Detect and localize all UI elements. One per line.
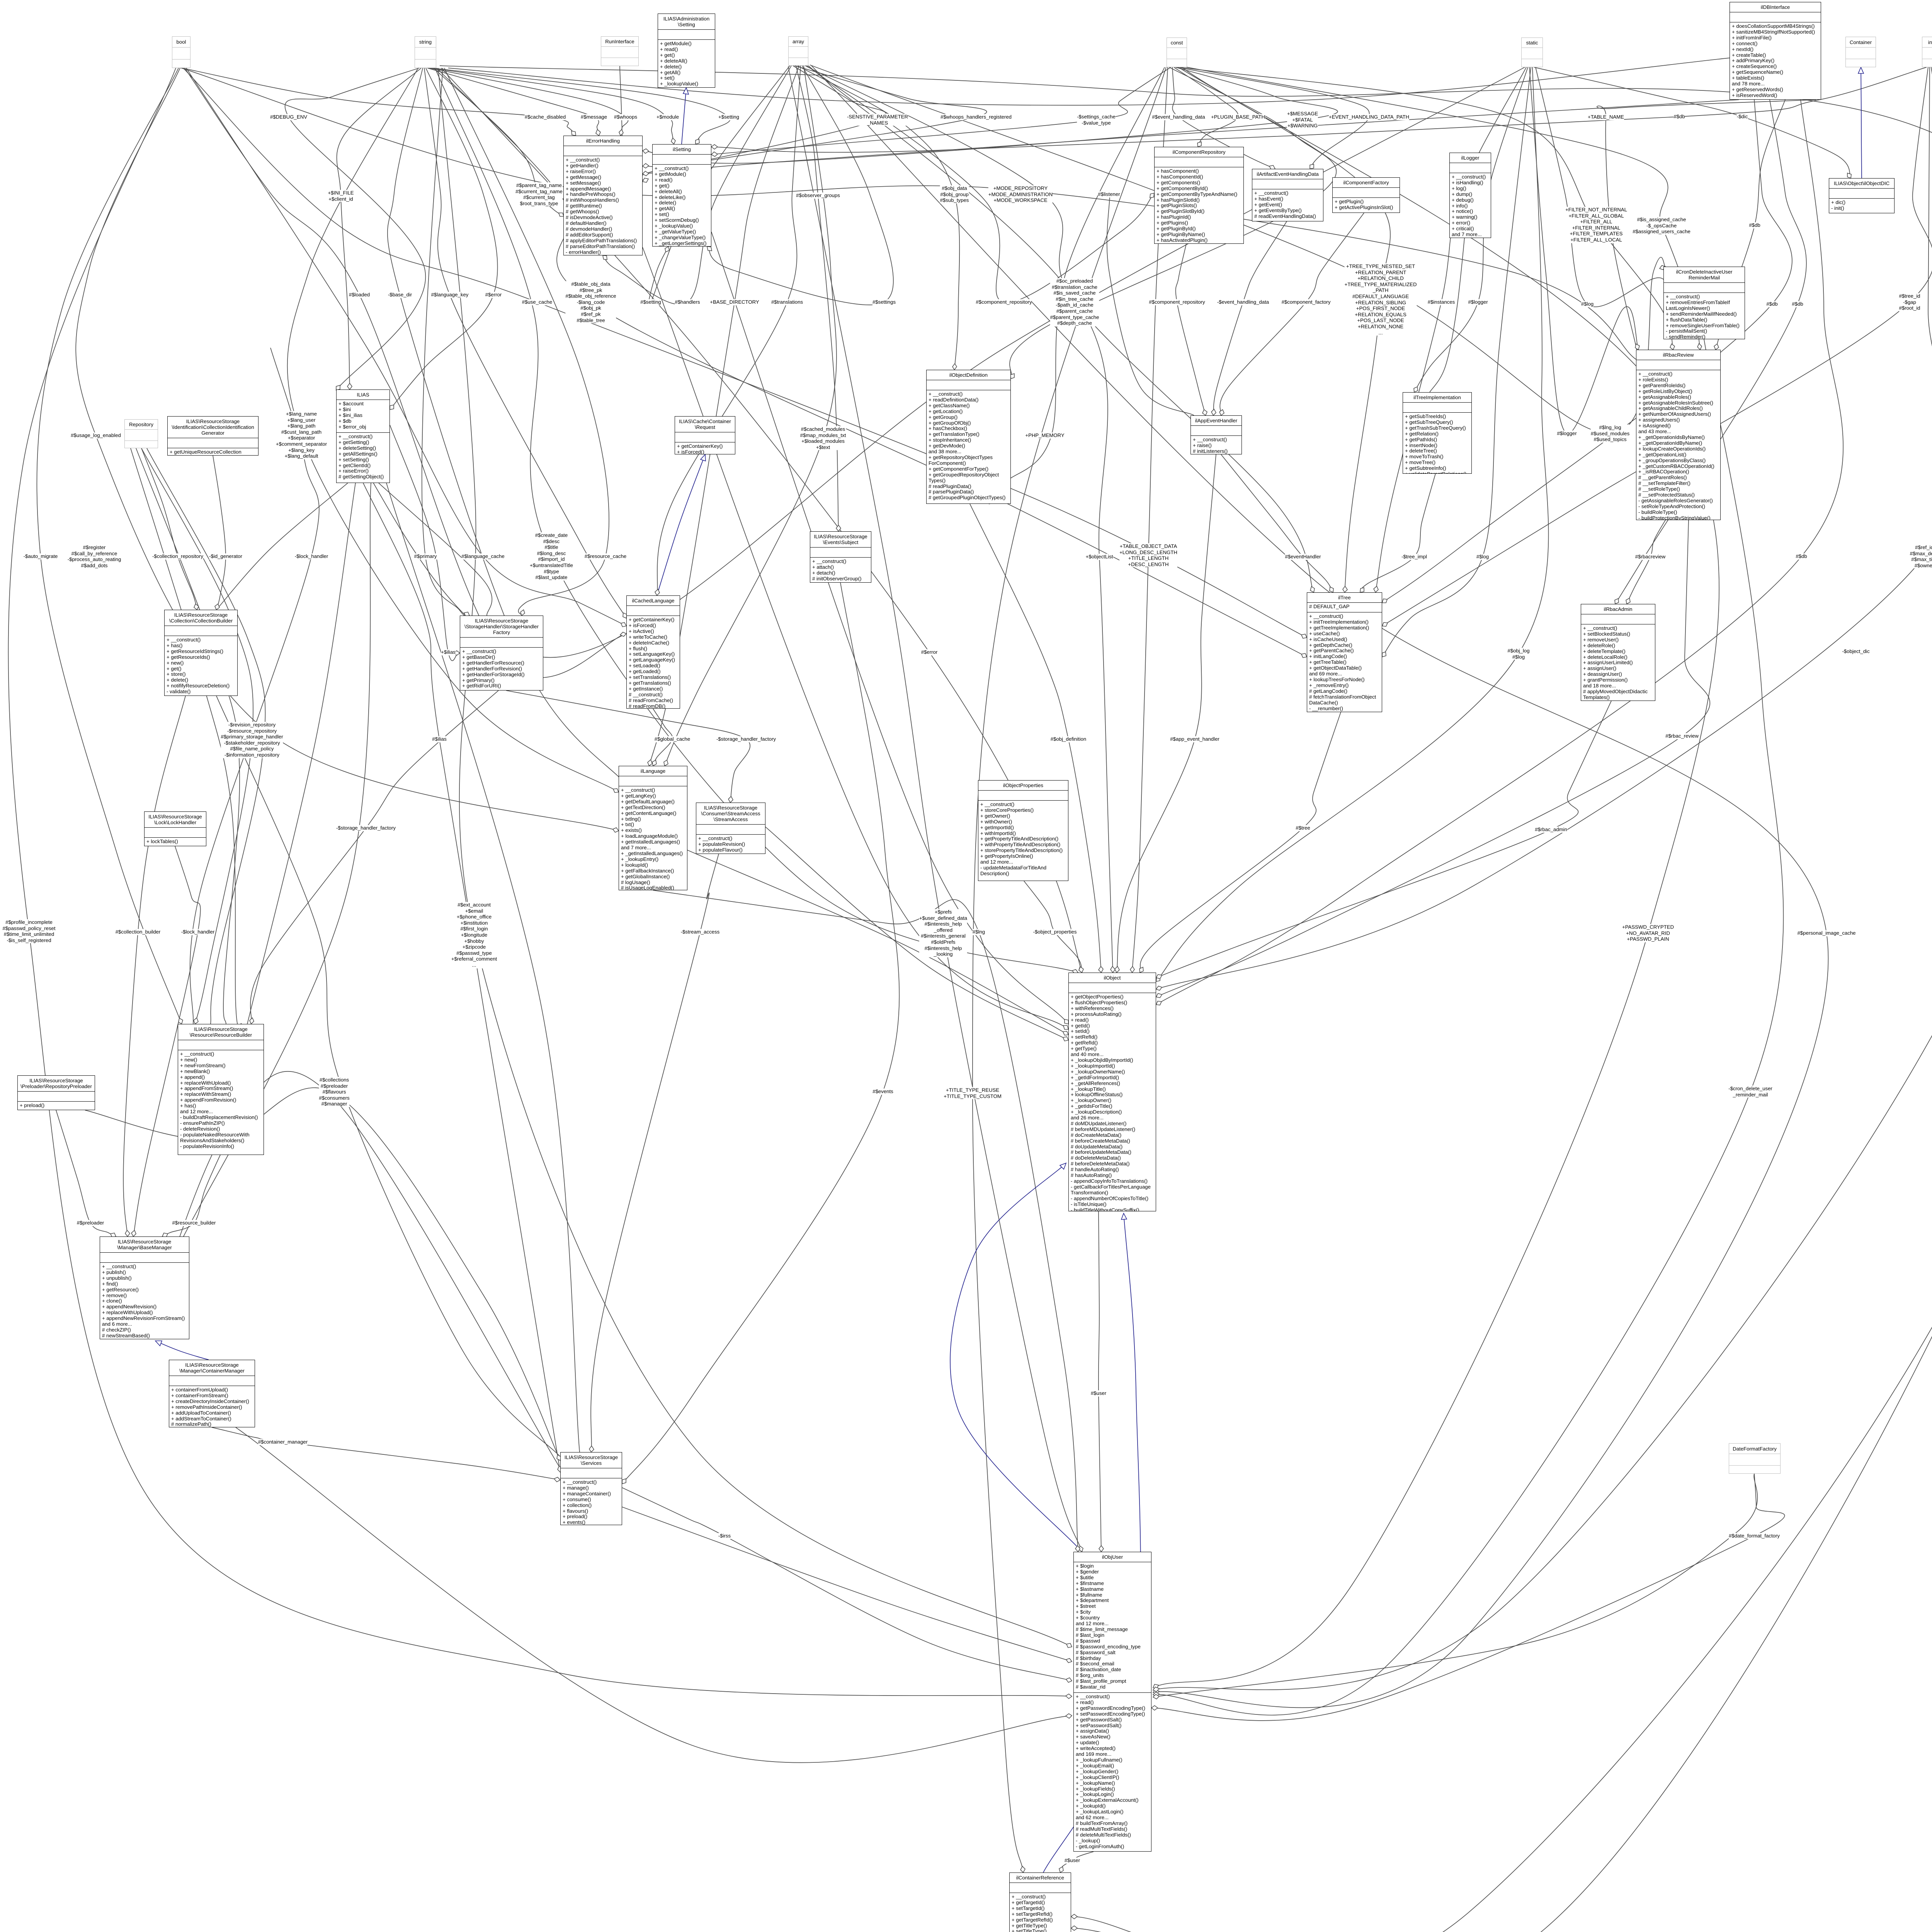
wire xyxy=(1414,67,1528,392)
wire xyxy=(185,68,626,678)
wire xyxy=(613,789,619,793)
wire xyxy=(444,68,609,616)
wire xyxy=(728,796,733,803)
label +$setting xyxy=(718,114,739,120)
wire xyxy=(125,1230,130,1236)
node StreamAccess xyxy=(696,803,765,854)
label #$ref_id xyxy=(1910,544,1932,568)
wire xyxy=(390,425,460,661)
wire xyxy=(182,68,576,136)
node static xyxy=(1521,37,1543,67)
wire xyxy=(133,846,201,1236)
wire xyxy=(1615,599,1619,604)
wire xyxy=(591,854,719,1452)
wire xyxy=(1180,67,1673,350)
wire xyxy=(1382,67,1531,657)
wire xyxy=(155,1341,162,1346)
label #$logger xyxy=(1557,430,1577,437)
node RunInterface xyxy=(601,36,639,66)
node const xyxy=(1167,37,1187,67)
label +PASSWD_CRYPTED xyxy=(1622,924,1674,942)
label #$preloader xyxy=(77,1220,104,1226)
label #$user xyxy=(1065,1857,1080,1864)
wire xyxy=(1099,1546,1104,1552)
node ilTree xyxy=(1307,592,1382,712)
node Container xyxy=(1845,37,1876,67)
node ilDBInterface xyxy=(1730,2,1821,100)
label #$register xyxy=(68,544,121,568)
label #$date_format_factory xyxy=(1729,1533,1780,1539)
node ilArtifactEventHandlingData xyxy=(1252,169,1323,221)
wire xyxy=(111,1233,116,1237)
label #$tree xyxy=(1296,825,1310,831)
wire xyxy=(9,68,1072,1696)
wire xyxy=(648,760,652,766)
wire xyxy=(1020,1866,1025,1872)
wire xyxy=(285,68,426,390)
wire xyxy=(1153,1687,1159,1692)
wire xyxy=(1139,967,1143,973)
wire xyxy=(1151,1706,1158,1710)
wire xyxy=(788,66,1082,1552)
wire xyxy=(1615,100,1806,604)
label +$prefs xyxy=(919,909,967,957)
node ilSetting xyxy=(652,144,711,247)
wire xyxy=(1343,586,1347,592)
wire xyxy=(623,613,627,618)
wire xyxy=(653,890,1078,1552)
wire xyxy=(989,67,1165,504)
label #$DEBUG_ENV xyxy=(270,114,307,120)
wire xyxy=(1714,344,1719,350)
node ilCachedLanguage xyxy=(626,595,680,709)
label #$handlers xyxy=(675,299,700,305)
wire xyxy=(424,68,626,618)
wire xyxy=(388,68,626,784)
label +BASE_DIRECTORY xyxy=(710,299,759,305)
wire xyxy=(1301,653,1307,658)
wire xyxy=(1071,1914,1077,1919)
wire xyxy=(1219,410,1224,415)
wire xyxy=(1063,1037,1068,1041)
wire xyxy=(1382,67,1932,626)
wire xyxy=(1847,173,1851,178)
wire xyxy=(183,68,1307,638)
label #$logger xyxy=(1468,299,1488,305)
wire xyxy=(596,129,600,136)
wire xyxy=(390,405,394,410)
wire xyxy=(836,525,841,531)
wire xyxy=(1597,100,1816,350)
wire xyxy=(186,68,626,626)
node Services xyxy=(560,1452,622,1525)
label -$object_properties xyxy=(1033,929,1077,935)
wire xyxy=(970,504,1101,973)
wire xyxy=(808,66,1113,973)
label #$usage_log_enabled xyxy=(71,432,121,439)
label -$dic xyxy=(1737,114,1748,120)
wire xyxy=(1043,1213,1141,1872)
wire xyxy=(1176,244,1206,415)
wire xyxy=(250,1018,254,1024)
wire xyxy=(1140,712,1341,973)
label #$tree_id xyxy=(1899,293,1920,311)
node string xyxy=(415,36,436,68)
label #$create_date xyxy=(530,532,573,581)
wire xyxy=(422,68,469,617)
wire xyxy=(1627,520,1665,604)
node Repository xyxy=(124,419,158,448)
wire xyxy=(652,760,656,766)
wire xyxy=(1376,67,1526,592)
node CacheRequest xyxy=(675,416,735,454)
node ilRbacReview xyxy=(1636,350,1721,520)
label #$whoops_handlers_registered xyxy=(940,114,1012,120)
wire xyxy=(1211,409,1216,415)
wire xyxy=(435,68,1078,973)
wire xyxy=(643,66,886,167)
wire xyxy=(687,850,1068,1035)
wire xyxy=(1220,213,1364,415)
wire xyxy=(1269,165,1275,170)
wire xyxy=(641,66,987,182)
wire xyxy=(1024,881,1082,973)
wire xyxy=(557,1455,561,1461)
wire xyxy=(216,483,348,610)
label #$events xyxy=(872,1088,893,1095)
node BaseManager xyxy=(100,1236,189,1339)
node DateFormatFactory xyxy=(1729,1443,1781,1474)
wire xyxy=(696,139,699,144)
wire xyxy=(559,213,564,216)
label #$event_handling_data xyxy=(1152,114,1205,120)
node ilObjUser xyxy=(1073,1552,1151,1852)
wire xyxy=(622,1479,626,1484)
label #$container_manager xyxy=(258,1439,308,1445)
wire xyxy=(1360,474,1435,592)
label +$objectList xyxy=(1086,554,1113,560)
label +FILTER_NOT_INTERNAL xyxy=(1565,207,1627,243)
wire xyxy=(952,364,957,370)
wire xyxy=(1115,966,1119,973)
wire xyxy=(643,67,1338,163)
node StorageHandlerFactory xyxy=(460,616,543,690)
wire xyxy=(1183,66,1700,350)
node ilTreeImplementation xyxy=(1403,392,1472,474)
label +$module xyxy=(656,114,679,120)
wire xyxy=(1156,67,1932,989)
wire xyxy=(1174,67,1238,147)
wire xyxy=(1660,265,1665,270)
node ilLanguage xyxy=(619,766,687,890)
label #$rbac_admin xyxy=(1535,827,1567,833)
label #$resource_builder xyxy=(172,1220,216,1226)
wire xyxy=(1063,1031,1068,1035)
wire xyxy=(56,1110,116,1236)
label #$setting xyxy=(640,299,661,305)
label #$eventHandler xyxy=(1285,554,1321,560)
label #$collection_builder xyxy=(116,929,161,935)
wire xyxy=(1156,986,1162,990)
label #$lng xyxy=(973,929,985,935)
wire xyxy=(653,709,672,766)
wire xyxy=(194,604,199,610)
wire xyxy=(950,1163,1082,1552)
label #$db xyxy=(1792,301,1803,307)
wire xyxy=(430,68,674,144)
wire xyxy=(1066,1714,1072,1718)
wire xyxy=(1117,454,1216,973)
wire xyxy=(390,68,498,410)
wire xyxy=(810,65,1665,434)
wire xyxy=(1382,599,1387,603)
wire xyxy=(212,1427,560,1480)
wire xyxy=(1107,195,1194,415)
wire xyxy=(1626,598,1630,604)
label #$resource_cache xyxy=(585,553,627,560)
wire xyxy=(643,247,1068,1029)
wire xyxy=(440,66,1932,1932)
wire xyxy=(427,68,599,136)
wire xyxy=(1330,587,1333,592)
wire xyxy=(1071,1926,1077,1930)
label -$tree_impl xyxy=(1401,554,1427,560)
label -$base_dir xyxy=(388,292,412,298)
label +TREE_TYPE_NESTED_SET xyxy=(1345,263,1417,335)
wire xyxy=(643,149,649,153)
wire xyxy=(643,178,648,182)
wire xyxy=(76,68,619,831)
wire xyxy=(1079,1546,1083,1552)
node ilComponentRepository xyxy=(1154,147,1244,244)
wire xyxy=(1156,701,1611,978)
wire xyxy=(174,66,1636,359)
label #$ext_account xyxy=(451,902,497,968)
label -$object_dic xyxy=(1842,648,1869,655)
wire xyxy=(454,651,460,655)
wire xyxy=(1079,967,1083,973)
label #$oc_preloaded xyxy=(1050,278,1099,327)
wire xyxy=(643,100,1739,174)
wire xyxy=(1534,67,1851,178)
wire xyxy=(1059,1867,1063,1872)
wire xyxy=(441,68,1082,973)
wire xyxy=(464,612,469,616)
label #$component_repository xyxy=(976,299,1032,305)
wire xyxy=(711,232,1068,1024)
wire xyxy=(1861,67,1862,178)
wire xyxy=(247,483,355,1024)
wire xyxy=(1382,652,1386,657)
wire xyxy=(1156,67,1548,981)
wire xyxy=(162,1155,220,1236)
node int xyxy=(1922,37,1932,67)
wire xyxy=(973,67,1166,1872)
wire xyxy=(622,583,899,1484)
node bool xyxy=(172,36,190,68)
wire xyxy=(250,690,498,1024)
wire xyxy=(1202,410,1207,415)
label #$message xyxy=(581,114,607,120)
wire xyxy=(432,68,730,144)
wire xyxy=(194,1018,198,1024)
wire xyxy=(643,171,649,176)
wire xyxy=(1153,1692,1159,1697)
wire xyxy=(711,145,718,149)
wire xyxy=(506,690,750,803)
wire xyxy=(213,456,226,610)
label #$global_cache xyxy=(655,736,690,742)
wire xyxy=(190,348,319,1024)
wire xyxy=(1414,387,1418,392)
wire xyxy=(1132,67,1168,973)
label -$irss xyxy=(718,1533,731,1539)
label #$db xyxy=(1673,114,1685,120)
wire xyxy=(236,1427,1072,1763)
wire xyxy=(707,247,712,251)
wire xyxy=(989,499,993,504)
label -$stream_access xyxy=(681,929,719,935)
wire xyxy=(386,483,580,1452)
label #$db xyxy=(1796,553,1807,560)
wire xyxy=(622,1507,1072,1662)
wire xyxy=(1179,67,1390,592)
wire xyxy=(1150,193,1154,198)
wire xyxy=(1153,1694,1159,1699)
wire xyxy=(438,68,1072,1647)
label #$language_key xyxy=(431,292,469,298)
wire xyxy=(1066,1658,1072,1663)
wire xyxy=(147,448,265,1024)
wire xyxy=(711,67,1171,155)
label +PLUGIN_BASE_PATH xyxy=(1211,114,1265,120)
label +$MESSAGE xyxy=(1287,111,1318,129)
wire xyxy=(1858,67,1864,73)
wire xyxy=(1213,221,1287,415)
label #$language_cache xyxy=(461,553,504,560)
label -$auto_migrate xyxy=(24,553,58,560)
label -$storage_handler_factory xyxy=(716,736,776,742)
wire xyxy=(805,66,1314,592)
node ContainerManager xyxy=(169,1360,255,1427)
wire xyxy=(1697,344,1702,350)
wire xyxy=(1079,967,1083,973)
wire xyxy=(1360,588,1364,592)
node array xyxy=(788,36,808,66)
wire xyxy=(711,152,718,156)
wire xyxy=(1075,1546,1080,1552)
label +TABLE_NAME xyxy=(1588,114,1624,120)
wire xyxy=(1010,374,1014,379)
wire xyxy=(1156,975,1162,979)
wire xyxy=(1151,1474,1785,1721)
label -$cron_delete_user xyxy=(1728,1085,1772,1097)
node ilContainerReference xyxy=(1009,1872,1071,1932)
wire xyxy=(765,827,1068,1040)
wire xyxy=(1071,67,1932,1932)
wire xyxy=(1072,969,1078,974)
wire xyxy=(665,66,837,766)
wire xyxy=(429,68,628,136)
node ilAppEventHandler xyxy=(1190,415,1242,454)
wire xyxy=(178,483,371,1248)
label #$ilias xyxy=(432,736,446,742)
node ilRbacAdmin xyxy=(1581,604,1655,701)
wire xyxy=(145,1071,560,1468)
wire xyxy=(379,483,492,616)
label #$user xyxy=(1091,1390,1106,1396)
label #$observer_groups xyxy=(796,192,840,199)
label #$log xyxy=(1476,554,1489,560)
node CronDelete xyxy=(1663,267,1745,339)
label #$primary xyxy=(414,553,437,560)
wire xyxy=(215,604,219,610)
label #$translations xyxy=(771,299,803,305)
wire xyxy=(123,696,185,1236)
wire xyxy=(657,454,705,595)
node ilObjectDIC xyxy=(1829,178,1895,213)
label #$obj_data xyxy=(940,185,969,204)
wire xyxy=(1153,1684,1158,1689)
wire xyxy=(141,448,253,1024)
wire xyxy=(141,448,197,610)
label #$component_repository xyxy=(1149,299,1205,305)
wire xyxy=(620,632,626,636)
wire xyxy=(603,255,607,260)
wire xyxy=(657,66,801,595)
label +MODE_REPOSITORY xyxy=(988,185,1053,204)
wire xyxy=(798,66,959,370)
label -SENSTIVE_PARAMETER xyxy=(847,114,908,126)
wire xyxy=(520,610,525,616)
wire xyxy=(554,1477,560,1482)
label #$error xyxy=(485,292,502,298)
wire xyxy=(655,589,660,595)
wire xyxy=(1153,67,1719,1688)
wire xyxy=(1121,1213,1127,1219)
wire xyxy=(1156,100,1843,1005)
wire xyxy=(85,1088,560,1461)
wire xyxy=(711,67,1927,152)
node CollIdGen xyxy=(167,416,259,456)
wire xyxy=(621,622,626,627)
wire xyxy=(1060,1163,1066,1169)
wire xyxy=(811,66,1828,1708)
wire xyxy=(336,385,340,390)
wire xyxy=(701,454,706,461)
wire xyxy=(1172,67,1275,169)
wire xyxy=(1156,1001,1162,1005)
wire xyxy=(1177,67,1369,169)
node ilComponentFactory xyxy=(1332,177,1400,213)
node LockHandler xyxy=(144,811,206,846)
wire xyxy=(1156,993,1162,998)
wire xyxy=(1221,454,1333,592)
wire xyxy=(1156,520,1710,997)
node ilObjectDefinition xyxy=(926,370,1011,504)
wire xyxy=(807,66,1154,303)
wire xyxy=(287,68,619,792)
label #$cache_disabled xyxy=(525,114,566,120)
wire xyxy=(1310,164,1314,169)
label #$table_obj_data xyxy=(565,281,616,323)
wire xyxy=(1382,622,1388,626)
node ILIAS xyxy=(336,389,390,483)
wire xyxy=(1066,1643,1072,1648)
node ilObjectProperties xyxy=(978,780,1068,881)
wire xyxy=(1635,344,1639,350)
wire xyxy=(664,760,668,766)
